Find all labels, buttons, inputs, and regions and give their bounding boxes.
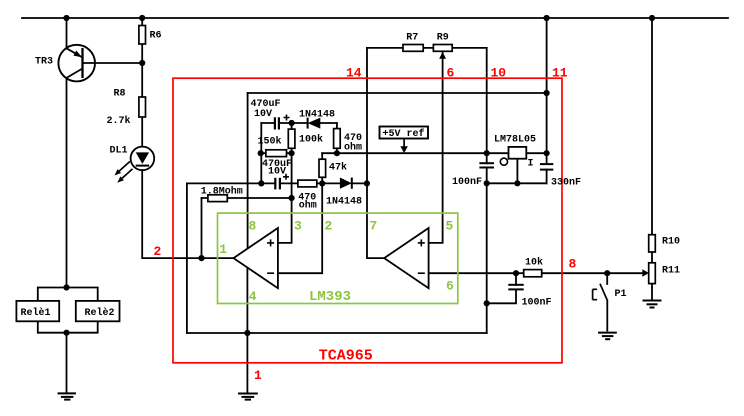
junction top rail / pin11 column: [544, 15, 550, 21]
svg-text:P1: P1: [615, 289, 627, 300]
wire internal ground rail: [187, 332, 487, 334]
svg-text:R7: R7: [406, 33, 418, 44]
capacitor C2 470uF 10V: [275, 174, 289, 190]
resistor R8: [139, 97, 146, 117]
junction LM78L05 input / 330nF: [544, 150, 550, 156]
junction P1 / R11 wiper wire: [604, 270, 610, 276]
regulator LM78L05: [509, 147, 527, 159]
svg-text:1.8Mohm: 1.8Mohm: [201, 186, 243, 198]
svg-text:Relè2: Relè2: [85, 307, 115, 319]
wire pin10 column R9 right to +5V rail and ground: [486, 48, 488, 333]
svg-text:TCA965: TCA965: [319, 348, 373, 365]
svg-text:2.7k: 2.7k: [107, 115, 131, 127]
wire supply column to R10: [651, 18, 653, 300]
relay Relè2: [76, 301, 120, 321]
LED DL1: [115, 147, 155, 183]
+5V ref flag: [380, 127, 429, 139]
svg-text:7: 7: [370, 219, 378, 234]
junction top rail / R10 column: [649, 15, 655, 21]
wire top supply rail: [22, 17, 728, 19]
potentiometer R9: [433, 45, 452, 52]
wire supply column x=546: [546, 18, 548, 153]
resistor 1.8Mohm: [208, 195, 227, 202]
wire pin1 ground stub: [246, 333, 248, 394]
wire relay parallel bottom rail: [38, 321, 98, 332]
svg-text:R10: R10: [662, 237, 680, 248]
wire relay ground stub: [66, 333, 68, 394]
resistor R7: [403, 45, 423, 52]
svg-text:R8: R8: [114, 89, 126, 100]
svg-text:100nF: 100nF: [452, 177, 482, 188]
svg-text:1: 1: [254, 368, 262, 383]
svg-text:3: 3: [294, 219, 302, 234]
green box LM393: [218, 213, 458, 303]
junction 150k left / C1 / C2 column: [258, 150, 264, 156]
wire 1.8Mohm feedback column: [201, 198, 203, 258]
capacitor 100nF on pin 8 net: [508, 285, 523, 290]
svg-text:5: 5: [446, 219, 454, 234]
wire cap2 to 470ohm horizontal: [281, 182, 340, 184]
pushbutton P1: [593, 284, 608, 301]
svg-text:2: 2: [154, 244, 162, 259]
svg-text:100nF: 100nF: [522, 298, 552, 309]
svg-text:8: 8: [569, 257, 577, 272]
svg-text:LM393: LM393: [309, 289, 351, 305]
ground main pin1: [238, 394, 258, 400]
wire P1 top stub: [606, 273, 608, 284]
junction C2 left / ground wire: [258, 180, 264, 186]
resistor R6: [139, 26, 146, 45]
junction 100nF bottom / ground column: [484, 180, 490, 186]
wire cap1 row: [261, 122, 337, 124]
ground relays: [58, 393, 77, 399]
resistor 47k: [319, 159, 326, 177]
diode D2 1N4148 pointing right: [340, 178, 352, 189]
svg-text:10k: 10k: [525, 257, 543, 269]
wire 330nF bottom to ground column: [487, 182, 547, 184]
junction 100nF2 bottom / ground column: [484, 300, 490, 306]
svg-text:ohm: ohm: [299, 200, 317, 212]
wire R7 R9 feedback row: [367, 47, 487, 49]
resistor 10k: [524, 270, 542, 277]
wire LM393 pin 8 supply: [247, 93, 249, 249]
wire R9 wiper to pin5: [429, 52, 443, 243]
wire comparator2 inverting input to 10k: [429, 272, 524, 274]
relay Relè1: [16, 301, 59, 321]
svg-text:+5V ref: +5V ref: [383, 128, 425, 140]
wire 330nF column: [546, 153, 548, 183]
junction 10k / 100nF2: [513, 270, 519, 276]
wire P1 bottom stub: [606, 301, 608, 331]
svg-text:R9: R9: [437, 33, 449, 44]
junction pin4 / internal ground rail: [244, 330, 250, 336]
wire 47k column pin2: [278, 153, 322, 273]
svg-text:11: 11: [552, 66, 568, 81]
wire 150k row: [261, 152, 292, 154]
svg-text:TR3: TR3: [35, 57, 53, 68]
wire ground left column: [186, 183, 188, 333]
resistor 100k: [288, 129, 295, 148]
wire cap1 left to 150k left to cap2 left: [260, 123, 262, 183]
capacitor C1 470uF 10V: [275, 115, 290, 130]
svg-text:10V: 10V: [254, 109, 272, 120]
junction comparator1 output / feedback: [198, 255, 204, 261]
junction 470ohm h / 47k / D2 / pin2: [319, 180, 325, 186]
wire R6 column: [141, 18, 143, 97]
wire diode2 cathode to pin7 column: [352, 182, 367, 184]
svg-text:1: 1: [219, 242, 227, 257]
resistor R10: [649, 235, 656, 252]
wire 10k to R11 wiper: [542, 272, 643, 274]
svg-text:R6: R6: [150, 31, 162, 42]
wire +5V reference rail: [322, 152, 546, 154]
wire DL1 cathode down and right to comparator output: [142, 170, 233, 258]
wire Vcc rail to LM393 pin 8: [248, 92, 547, 94]
junction top rail / R6: [139, 15, 145, 21]
svg-text:10V: 10V: [268, 167, 286, 178]
wire cap2 ground row: [187, 182, 275, 184]
svg-text:2: 2: [325, 219, 333, 234]
svg-text:LM78L05: LM78L05: [494, 135, 536, 146]
junction D2 cathode / pin7 column: [364, 180, 370, 186]
op-amp U1A comparator 1: [234, 228, 278, 288]
svg-text:1N4148: 1N4148: [299, 110, 335, 121]
svg-text:I: I: [528, 159, 534, 170]
R9 wiper arrow: [439, 52, 446, 59]
R11 wiper arrow: [642, 269, 649, 277]
resistor 470 ohm horizontal: [298, 180, 317, 187]
resistor 150k: [266, 150, 287, 157]
svg-text:ohm: ohm: [344, 142, 362, 154]
wire TR3 collector down to relays: [66, 78, 68, 288]
svg-text:1N4148: 1N4148: [326, 197, 362, 208]
wire TR3 emitter from rail: [66, 18, 68, 48]
wire 1.8Mohm row: [202, 197, 292, 199]
svg-text:4: 4: [249, 289, 257, 304]
capacitor 330nF: [540, 164, 553, 170]
diode D1 1N4148 pointing left: [308, 118, 321, 129]
wire 100nF2 column: [487, 273, 516, 303]
wire LM78L05 ground pin: [516, 159, 518, 184]
red box TCA965: [173, 78, 562, 363]
svg-text:8: 8: [249, 219, 257, 234]
svg-text:Relè1: Relè1: [21, 307, 51, 319]
junction 150k right / 100k: [289, 150, 295, 156]
svg-text:100k: 100k: [299, 134, 323, 146]
svg-text:14: 14: [346, 66, 362, 81]
wire TR3 base to R6/R8 junction: [83, 62, 143, 64]
junction relay bottom rail / ground: [63, 330, 69, 336]
capacitor 100nF decoupling: [479, 163, 494, 167]
junction 1.8Mohm / pin3 column: [289, 195, 295, 201]
svg-text:DL1: DL1: [110, 146, 128, 157]
junction TR3 base / R6 / R8: [139, 60, 145, 66]
wire relay parallel top rail: [38, 288, 98, 301]
svg-text:330nF: 330nF: [551, 178, 581, 189]
ground R11: [643, 301, 662, 308]
svg-text:150k: 150k: [258, 136, 282, 148]
wire pin14 / comparator2 output column: [367, 48, 384, 258]
wire 470ohm vertical leads: [336, 123, 338, 153]
junction C1 / 100k / D1: [289, 120, 295, 126]
junction +5V rail / 100nF / pin10 column: [484, 150, 490, 156]
wire R8 to DL1: [141, 117, 143, 147]
transistor TR3: [58, 45, 95, 82]
resistor 470 ohm vertical: [334, 129, 341, 149]
op-amp U1B comparator 2: [384, 228, 428, 288]
junction top rail / TR3 emitter: [63, 15, 69, 21]
ground P1: [598, 333, 617, 340]
wire 100k column pin3: [278, 123, 292, 243]
svg-text:6: 6: [447, 66, 455, 81]
junction 470ohm / 47k / +5V rail: [334, 150, 340, 156]
svg-text:10: 10: [491, 66, 507, 81]
junction LM78L05 ground pin: [514, 180, 520, 186]
svg-text:R11: R11: [662, 266, 680, 277]
svg-text:6: 6: [446, 279, 454, 294]
potentiometer R11: [649, 263, 656, 284]
junction TR3 collector / relay rail: [63, 284, 69, 290]
wire LM393 pin 4 ground: [246, 267, 248, 333]
svg-text:47k: 47k: [329, 162, 347, 174]
junction Vcc rail / pin11 column: [544, 90, 550, 96]
